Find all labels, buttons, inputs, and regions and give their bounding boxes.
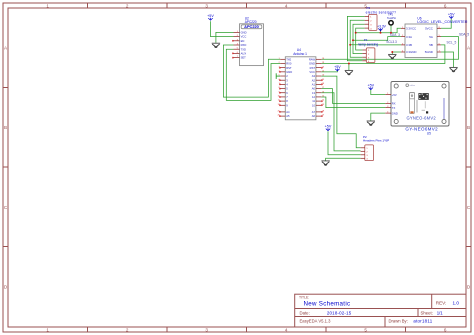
svg-text:+5V: +5V: [207, 14, 214, 18]
svg-text:5: 5: [279, 75, 280, 77]
svg-text:1/1: 1/1: [437, 310, 444, 315]
svg-text:SCL_5: SCL_5: [447, 41, 457, 45]
svg-text:5: 5: [439, 35, 440, 37]
svg-text:temp sensing: temp sensing: [359, 42, 379, 46]
svg-text:+5V: +5V: [448, 12, 455, 16]
svg-text:8: 8: [439, 27, 440, 29]
svg-text:VCC: VCC: [241, 35, 247, 39]
svg-text:Drawn By:: Drawn By:: [389, 318, 408, 323]
svg-text:RX0: RX0: [286, 62, 292, 66]
svg-text:3.3GND: 3.3GND: [406, 50, 416, 54]
svg-text:TXD: TXD: [241, 47, 246, 51]
svg-text:electro sensing??: electro sensing??: [366, 10, 397, 14]
svg-text:4: 4: [285, 327, 288, 332]
svg-text:A6: A6: [312, 114, 316, 118]
svg-text:3.3B: 3.3B: [406, 43, 412, 47]
svg-text:21: 21: [322, 70, 324, 72]
svg-text:A0: A0: [312, 87, 316, 91]
svg-text:5: 5: [364, 327, 367, 332]
svg-text:5A: 5A: [429, 35, 433, 39]
svg-text:3: 3: [387, 106, 388, 108]
svg-text:EN: EN: [241, 39, 245, 43]
svg-text:1: 1: [279, 58, 280, 60]
svg-text:5B: 5B: [429, 43, 433, 47]
svg-text:TX: TX: [392, 106, 396, 110]
svg-text:Date:: Date:: [300, 310, 310, 315]
svg-text:GND: GND: [241, 31, 247, 35]
svg-text:A5: A5: [286, 114, 290, 118]
svg-text:3: 3: [205, 327, 208, 332]
svg-text:+5V: +5V: [392, 93, 397, 97]
svg-text:Arduino 1: Arduino 1: [293, 52, 307, 56]
svg-text:3: 3: [402, 43, 403, 45]
svg-text:RX: RX: [392, 102, 396, 106]
svg-text:2: 2: [126, 327, 129, 332]
svg-text:VCC: VCC: [309, 70, 315, 74]
svg-text:1: 1: [46, 3, 49, 8]
svg-text:1: 1: [387, 93, 388, 95]
svg-text:New Schematic: New Schematic: [304, 301, 351, 308]
svg-text:4: 4: [285, 3, 288, 8]
svg-text:B: B: [4, 125, 7, 130]
svg-text:RXD: RXD: [241, 43, 247, 47]
svg-text:RST: RST: [310, 66, 316, 70]
svg-text:TestPin: TestPin: [387, 16, 397, 20]
svg-text:B: B: [467, 125, 470, 130]
svg-text:Sheet:: Sheet:: [421, 310, 433, 315]
svg-text:4: 4: [237, 44, 238, 46]
svg-text:A3: A3: [312, 74, 316, 78]
svg-text:2: 2: [237, 35, 238, 37]
svg-text:GND: GND: [309, 62, 315, 66]
svg-text:2: 2: [387, 102, 388, 104]
svg-text:u-blox: u-blox: [409, 85, 414, 87]
svg-text:U5: U5: [427, 131, 431, 135]
svg-text:17: 17: [322, 87, 324, 89]
svg-text:1: 1: [402, 27, 403, 29]
svg-text:TITLE:: TITLE:: [299, 296, 309, 300]
svg-text:2: 2: [126, 3, 129, 8]
svg-text:7: 7: [439, 51, 440, 53]
svg-text:A4: A4: [286, 110, 290, 114]
svg-text:+5V: +5V: [325, 125, 332, 129]
svg-text:2: 2: [279, 62, 280, 64]
svg-text:6: 6: [444, 327, 447, 332]
svg-text:16: 16: [322, 91, 324, 93]
svg-text:GY-NEO6MV2: GY-NEO6MV2: [405, 127, 438, 132]
svg-text:SET: SET: [241, 56, 247, 60]
svg-text:APC220: APC220: [244, 24, 259, 29]
svg-text:+5V: +5V: [334, 65, 341, 69]
svg-text:5: 5: [237, 48, 238, 50]
svg-text:2018-02-15: 2018-02-15: [327, 310, 352, 315]
svg-text:ator1811: ator1811: [413, 318, 432, 323]
svg-text:10: 10: [312, 103, 315, 107]
svg-text:SCL3.3: SCL3.3: [386, 40, 397, 44]
svg-text:GYNEO-6MV2: GYNEO-6MV2: [407, 116, 437, 121]
svg-text:24: 24: [322, 58, 324, 60]
svg-text:GND: GND: [286, 70, 292, 74]
svg-text:6: 6: [439, 43, 440, 45]
svg-text:RAW: RAW: [309, 57, 316, 61]
svg-text:SDA_3: SDA_3: [390, 33, 400, 37]
svg-text:+3.3V: +3.3V: [377, 24, 387, 28]
svg-text:23: 23: [322, 62, 324, 64]
svg-text:3.3VCC: 3.3VCC: [406, 27, 416, 31]
svg-text:4: 4: [387, 112, 388, 114]
svg-text:6: 6: [237, 52, 238, 54]
svg-text:5GND: 5GND: [425, 50, 433, 54]
svg-text:P6: P6: [367, 6, 371, 10]
svg-text:AUX: AUX: [241, 52, 247, 56]
svg-text:A1: A1: [312, 82, 316, 86]
svg-text:A7: A7: [312, 110, 316, 114]
svg-text:GND: GND: [392, 111, 398, 115]
svg-text:REV:: REV:: [436, 300, 447, 305]
svg-text:7: 7: [237, 56, 238, 58]
svg-text:1: 1: [237, 31, 238, 33]
svg-text:6: 6: [444, 3, 447, 8]
svg-text:20: 20: [322, 75, 324, 77]
svg-text:2: 2: [402, 35, 403, 37]
svg-text:4: 4: [402, 51, 403, 53]
svg-text:A2: A2: [312, 78, 316, 82]
svg-text:15: 15: [322, 96, 324, 98]
svg-text:5VCC: 5VCC: [425, 27, 433, 31]
svg-text:3.3A: 3.3A: [406, 35, 412, 39]
svg-text:1.0: 1.0: [453, 300, 460, 305]
svg-text:RST: RST: [286, 66, 292, 70]
svg-text:1: 1: [46, 327, 49, 332]
svg-text:SDA_5: SDA_5: [459, 32, 469, 36]
svg-text:TX0: TX0: [286, 57, 291, 61]
svg-text:Headers Pins 1*6P: Headers Pins 1*6P: [363, 139, 389, 143]
svg-text:EasyEDA V5.1.3: EasyEDA V5.1.3: [300, 318, 332, 323]
svg-text:13: 13: [312, 91, 315, 95]
svg-text:3: 3: [237, 39, 238, 41]
svg-text:3: 3: [205, 3, 208, 8]
svg-text:+5V: +5V: [367, 84, 374, 88]
svg-text:12: 12: [312, 95, 315, 99]
